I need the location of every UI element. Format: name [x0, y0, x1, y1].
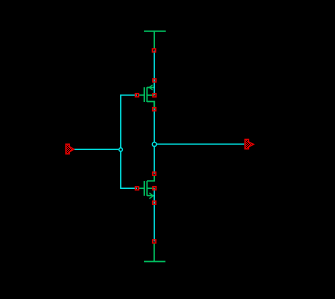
- wire input to nmos gate: [121, 149, 137, 188]
- nmos bulk pin: [153, 187, 156, 190]
- pmos source pin: [153, 79, 156, 82]
- vdd rail symbol: [144, 31, 166, 48]
- output junction node: [152, 142, 156, 146]
- wire output: [154, 143, 244, 145]
- pmos transistor M1: [139, 81, 155, 109]
- input junction node: [119, 148, 123, 152]
- input port A: [66, 144, 74, 154]
- wire pmos drain to nmos drain: [153, 109, 155, 174]
- wire vdd pin to pmos bulk pin: [153, 51, 155, 96]
- ground symbol: [144, 244, 165, 262]
- output port Y: [245, 139, 254, 149]
- nmos source pin: [153, 201, 156, 204]
- nmos gate pin: [135, 187, 138, 190]
- gnd pin: [153, 240, 156, 243]
- vdd pin: [152, 49, 155, 52]
- pmos gate pin: [135, 94, 138, 97]
- pmos drain pin: [153, 108, 156, 111]
- wire input: [74, 148, 121, 150]
- nmos drain pin: [153, 172, 156, 175]
- pmos bulk pin: [153, 94, 156, 97]
- wire nmos bulk to gnd: [153, 188, 155, 241]
- nmos transistor M2: [139, 176, 155, 203]
- wire input to pmos gate: [121, 95, 137, 149]
